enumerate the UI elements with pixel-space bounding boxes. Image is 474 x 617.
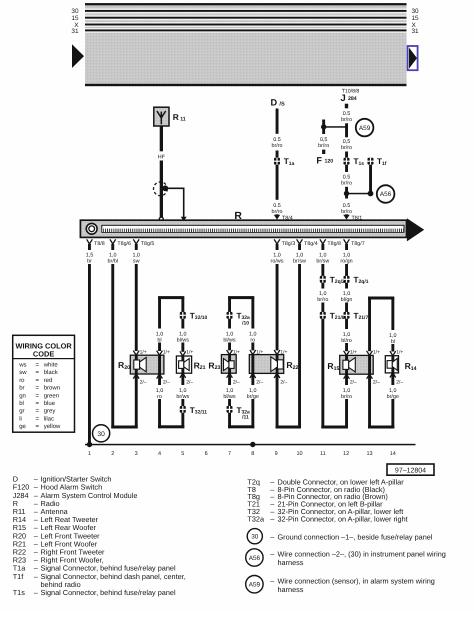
- svg-text:br/ro: br/ro: [271, 143, 282, 149]
- connector T2q/2: [320, 276, 345, 286]
- wire 1,0 ro/ws from T8g/3 to R22: [274, 264, 280, 355]
- svg-text:T8g/8: T8g/8: [327, 241, 341, 247]
- svg-text:gr: gr: [19, 409, 24, 415]
- pin T8g/8 on radio (bottom): [316, 239, 341, 264]
- svg-text:blue: blue: [44, 400, 56, 407]
- svg-text:0.5: 0.5: [343, 111, 351, 117]
- svg-text:2/–: 2/–: [140, 379, 147, 385]
- svg-text:br/ro: br/ro: [271, 209, 282, 215]
- legend wire connection A59: [246, 576, 435, 595]
- svg-text:white: white: [43, 362, 59, 369]
- pin T8g/6 on radio (bottom): [108, 239, 131, 264]
- tee junction to F120 branch: [321, 120, 347, 135]
- svg-text:1,5: 1,5: [86, 253, 94, 259]
- svg-text:1,0: 1,0: [319, 253, 327, 259]
- svg-text:=: =: [36, 424, 40, 430]
- svg-text:T8g/4: T8g/4: [304, 241, 318, 247]
- wire T1a to radio T8/4, 0.5 br/ro: [271, 165, 282, 216]
- svg-text:=: =: [36, 378, 40, 384]
- svg-text:red: red: [44, 377, 53, 384]
- return loop R22 right to T8g/4: [274, 373, 301, 428]
- svg-text:/11: /11: [242, 415, 249, 421]
- svg-text:br/ro: br/ro: [341, 181, 352, 187]
- svg-text:T8/8: T8/8: [94, 241, 105, 247]
- svg-text:bl: bl: [19, 400, 24, 407]
- power rail band: [85, 3, 407, 86]
- connector T32a/11: [227, 406, 251, 421]
- svg-text:0.5: 0.5: [273, 203, 281, 209]
- svg-text:0,5: 0,5: [320, 137, 328, 143]
- svg-text:2/–: 2/–: [163, 379, 170, 385]
- svg-text:black: black: [44, 369, 59, 376]
- svg-text:CODE: CODE: [33, 349, 54, 358]
- return loop T21/8 to R15: [321, 426, 348, 429]
- wire 1,0 bl/gn: [341, 283, 353, 312]
- svg-text:T32a: T32a: [247, 514, 265, 523]
- pin T8g/3 on radio (bottom): [271, 239, 296, 264]
- svg-text:=: =: [36, 386, 40, 392]
- svg-text:J: J: [341, 92, 346, 103]
- svg-text:14: 14: [411, 366, 417, 372]
- svg-text:23: 23: [215, 365, 221, 371]
- svg-text:br/ro: br/ro: [341, 145, 352, 151]
- svg-text:32/10: 32/10: [195, 315, 208, 321]
- svg-text:1,0: 1,0: [249, 331, 257, 337]
- svg-text:12: 12: [343, 451, 349, 457]
- ground connection 30: [93, 425, 110, 442]
- svg-text:Ground connection –1–, beside: Ground connection –1–, beside fuse/relay…: [278, 533, 433, 542]
- connector T2q/1: [344, 276, 369, 286]
- svg-text:11: 11: [180, 117, 186, 123]
- wire 1,0 br/ge from R22 left 2/-: [247, 373, 259, 428]
- wire 1,0 ro to R22: [249, 298, 257, 355]
- wire 1,0 bl/ws to R23: [223, 319, 236, 355]
- return loop R15 right to R14: [367, 374, 395, 428]
- svg-text:=: =: [36, 409, 40, 415]
- speaker R14 left rear tweeter: [385, 356, 398, 373]
- svg-text:ro/gn: ro/gn: [340, 259, 352, 265]
- pin T8/8 on radio (bottom): [86, 239, 105, 264]
- svg-text:1,0: 1,0: [389, 388, 397, 394]
- svg-text:1,0: 1,0: [273, 253, 281, 259]
- svg-text:A59: A59: [359, 125, 371, 132]
- svg-text:2/–: 2/–: [186, 379, 193, 385]
- svg-text:harness: harness: [278, 558, 304, 567]
- svg-text:5: 5: [181, 451, 184, 457]
- return loop R23 to R22: [228, 413, 254, 429]
- svg-text:lilac: lilac: [44, 415, 54, 422]
- svg-text:30: 30: [97, 431, 105, 438]
- wire 1,0 br/ro from R15 left 2/-: [341, 374, 352, 428]
- svg-text:7: 7: [228, 451, 231, 457]
- svg-text:2q/1: 2q/1: [359, 279, 369, 285]
- continuation arrow marker (boxed): [408, 46, 418, 70]
- svg-text:br: br: [87, 259, 92, 265]
- svg-text:2/–: 2/–: [373, 379, 380, 385]
- alarm system control module J284, pin T10/8/8: [341, 88, 360, 108]
- svg-text:grey: grey: [44, 409, 56, 415]
- node A56: [377, 185, 395, 203]
- bridge wire to tweeter circuit (left front): [157, 296, 185, 355]
- wire 1,0 br/bl from T8g/6 down: [111, 264, 114, 428]
- node A59: [356, 119, 374, 137]
- svg-text:1: 1: [88, 451, 91, 457]
- svg-text:br/ro: br/ro: [318, 143, 329, 149]
- pin T8g/5 on radio (bottom): [132, 239, 154, 264]
- svg-text:97–12804: 97–12804: [395, 468, 426, 475]
- svg-text:/10: /10: [242, 320, 249, 326]
- svg-text:A56: A56: [380, 191, 392, 198]
- svg-text:ws: ws: [18, 363, 26, 369]
- svg-text:22: 22: [293, 365, 299, 371]
- svg-text:br/sw: br/sw: [316, 259, 329, 265]
- connector T1s: [344, 157, 365, 167]
- svg-text:8: 8: [251, 451, 254, 457]
- wire T8g/8 down: [321, 264, 324, 276]
- svg-text:0.5: 0.5: [273, 137, 281, 143]
- svg-text:2/–: 2/–: [233, 379, 240, 385]
- svg-text:1,0: 1,0: [343, 332, 351, 338]
- svg-text:1,0: 1,0: [179, 331, 187, 337]
- svg-text:1/+: 1/+: [280, 350, 287, 356]
- svg-text:1,0: 1,0: [249, 388, 257, 394]
- svg-text:2/–: 2/–: [280, 379, 287, 385]
- return loop R20 to R21: [158, 413, 184, 429]
- svg-text:1a: 1a: [289, 161, 295, 167]
- pin T8/4 into radio: [274, 215, 293, 222]
- pin labels R15: [350, 350, 380, 386]
- wire bridge right leg: [181, 298, 184, 312]
- connector T1f: [368, 157, 387, 167]
- svg-text:ro: ro: [19, 378, 25, 384]
- pin T8g/4 on radio (bottom): [293, 239, 318, 264]
- svg-text:li: li: [19, 415, 22, 422]
- radio R (bus strip): [80, 218, 424, 241]
- svg-text:0.5: 0.5: [343, 203, 351, 209]
- svg-text:green: green: [44, 393, 59, 399]
- speaker R22 right front tweeter: [249, 355, 283, 374]
- svg-text:1,0: 1,0: [156, 388, 164, 394]
- svg-text:2/–: 2/–: [350, 379, 357, 385]
- connector T21/7: [344, 312, 369, 322]
- pin labels R21: [186, 350, 193, 386]
- svg-text:=: =: [36, 401, 40, 407]
- svg-text:32/11: 32/11: [195, 409, 207, 415]
- svg-text:=: =: [36, 370, 40, 376]
- svg-text:21: 21: [200, 365, 206, 371]
- svg-text:=: =: [36, 363, 40, 369]
- wire J284 down, 0.5 br/ro: [341, 111, 352, 137]
- svg-text:9: 9: [275, 451, 278, 457]
- svg-text:1,0: 1,0: [179, 388, 187, 394]
- ground reference dot terminal 8: [250, 442, 255, 447]
- svg-text:21/8: 21/8: [335, 315, 345, 321]
- svg-text:14: 14: [390, 451, 396, 457]
- wire 1,0 sw from T8g/5 to R20: [133, 264, 139, 355]
- pin labels R20: [140, 350, 170, 386]
- svg-text:1/+: 1/+: [256, 350, 263, 356]
- wire T8g/7 down: [345, 264, 348, 276]
- svg-text:1,0: 1,0: [226, 331, 234, 337]
- svg-text:20: 20: [124, 365, 130, 371]
- svg-text:=: =: [36, 416, 40, 422]
- connector T21/8: [320, 312, 345, 322]
- continuation arrow left: [72, 44, 84, 68]
- svg-text:4: 4: [158, 451, 161, 457]
- svg-text:2/–: 2/–: [396, 379, 403, 385]
- svg-text:2: 2: [111, 451, 114, 457]
- terminal labels left 30/15/X/31: [71, 8, 79, 35]
- svg-text:br/ro: br/ro: [317, 297, 328, 303]
- pin labels R22: [256, 350, 287, 386]
- junction dot antenna branch: [162, 185, 168, 191]
- svg-text:Signal Connector, behind fuse/: Signal Connector, behind fuse/relay pane…: [41, 588, 176, 597]
- svg-text:T8g/3: T8g/3: [282, 241, 296, 247]
- svg-text:bl/gn: bl/gn: [341, 297, 353, 303]
- connector T32a/10: [227, 312, 251, 327]
- svg-text:1/+: 1/+: [350, 350, 357, 356]
- svg-text:0,5: 0,5: [343, 139, 351, 145]
- svg-text:31: 31: [71, 28, 79, 35]
- wire to T1s, 0,5 br/ro: [341, 139, 352, 158]
- wire 1,0 br/ws from R21 2/-: [176, 373, 189, 406]
- junction wire to A56: [344, 191, 371, 196]
- wire T1f down to junction: [368, 165, 374, 197]
- svg-text:F: F: [316, 155, 322, 165]
- pin T8/1 into radio: [343, 215, 362, 222]
- speaker R21 left front woofer: [176, 356, 191, 373]
- speaker R20 left front tweeter: [130, 355, 164, 374]
- svg-text:3: 3: [135, 451, 138, 457]
- bridge wire to woofer circuit (right front): [228, 296, 254, 312]
- svg-text:1/+: 1/+: [233, 350, 240, 356]
- svg-text:1s: 1s: [359, 161, 365, 167]
- svg-text:1,0: 1,0: [389, 333, 397, 339]
- svg-text:1,0: 1,0: [343, 253, 351, 259]
- svg-text:2q/2: 2q/2: [335, 279, 345, 285]
- svg-text:yellow: yellow: [44, 423, 61, 430]
- svg-text:harness: harness: [278, 585, 304, 594]
- svg-text:A59: A59: [249, 582, 261, 589]
- legend left column: [13, 475, 186, 597]
- wire antenna branch to radio: [165, 188, 187, 221]
- svg-text:ge: ge: [19, 424, 26, 430]
- svg-text:bl: bl: [157, 338, 161, 344]
- svg-text:T1f: T1f: [13, 572, 25, 581]
- antenna R11: [154, 107, 186, 126]
- wire D/S to T1a, 0.5 br/ro: [271, 109, 282, 158]
- wire 1,0 br/ge from R14 2/-: [387, 373, 399, 428]
- svg-text:=: =: [36, 393, 40, 399]
- svg-text:1,0: 1,0: [319, 291, 327, 297]
- wire HF (antenna lead): [158, 126, 166, 217]
- ground terminal strip: [85, 444, 416, 457]
- svg-text:1,0: 1,0: [156, 331, 164, 337]
- svg-text:11: 11: [320, 451, 326, 457]
- svg-text:30: 30: [251, 534, 259, 541]
- svg-text:1,0: 1,0: [343, 291, 351, 297]
- svg-text:284: 284: [348, 96, 357, 102]
- svg-text:1f: 1f: [382, 161, 387, 167]
- svg-text:R: R: [173, 112, 179, 122]
- connector T32/11: [180, 406, 207, 416]
- return loop T8g/6 to R20 left 2/-: [111, 374, 139, 429]
- svg-text:T8g/7: T8g/7: [351, 241, 365, 247]
- wire 1,5 br from T8/8 to ground strip: [88, 264, 91, 445]
- svg-text:2/–: 2/–: [256, 379, 263, 385]
- ground junction dot terminal 1: [87, 442, 92, 447]
- bridge wire to rear tweeter circuit: [367, 297, 395, 356]
- diagram number box 97-12804: [387, 464, 434, 475]
- pin labels R14: [396, 350, 403, 386]
- svg-text:120: 120: [325, 159, 334, 165]
- svg-text:/S: /S: [279, 101, 285, 108]
- svg-text:br/ro: br/ro: [341, 209, 352, 215]
- svg-text:31: 31: [412, 28, 420, 35]
- svg-text:T8g/6: T8g/6: [117, 241, 131, 247]
- svg-text:br: br: [19, 385, 24, 392]
- hood alarm switch F120 branch, 0.5 br/ro: [316, 137, 333, 165]
- svg-text:HF: HF: [158, 154, 166, 160]
- svg-text:gn: gn: [19, 393, 26, 399]
- svg-text:D: D: [271, 98, 278, 108]
- svg-text:sw: sw: [19, 370, 27, 376]
- wire 1,0 bl/ro to R15: [341, 319, 352, 356]
- wire 1,0 ro from R20 right 2/-: [156, 374, 164, 428]
- legend ground connection 30: [247, 529, 433, 544]
- svg-text:21/7: 21/7: [359, 315, 369, 321]
- pin labels R23: [233, 350, 240, 386]
- svg-text:br/ro: br/ro: [341, 117, 352, 123]
- svg-text:T1s: T1s: [13, 588, 26, 597]
- svg-text:1,0: 1,0: [109, 253, 117, 259]
- svg-text:15: 15: [334, 366, 340, 372]
- connector T32/10: [180, 312, 208, 322]
- wire 1,0 br/ro: [317, 283, 328, 312]
- svg-text:1/+: 1/+: [373, 350, 380, 356]
- wire 1,0 bl/ws to R21: [177, 319, 190, 356]
- svg-text:br/sw: br/sw: [293, 259, 306, 265]
- svg-text:32-Pin Connector, on A-pillar,: 32-Pin Connector, on A-pillar, lower rig…: [278, 514, 408, 523]
- connector T1a: [274, 157, 295, 167]
- svg-text:1,0: 1,0: [226, 388, 234, 394]
- terminal labels right 30/15/X/31: [412, 8, 420, 35]
- svg-text:ro/ws: ro/ws: [271, 259, 284, 265]
- wiring color code box: [13, 335, 75, 432]
- svg-text:1/+: 1/+: [396, 350, 403, 356]
- wire 1,0 br/sw from T8g/4 down: [298, 264, 301, 428]
- svg-text:sw: sw: [133, 259, 140, 265]
- svg-text:1/+: 1/+: [140, 350, 147, 356]
- svg-text:13: 13: [366, 451, 372, 457]
- svg-text:1,0: 1,0: [296, 253, 304, 259]
- ignition/starter switch D/S: [271, 98, 285, 108]
- svg-text:0.5: 0.5: [343, 174, 351, 180]
- pin T8g/7 on radio (bottom): [340, 239, 364, 264]
- svg-text:brown: brown: [44, 385, 60, 392]
- svg-text:T8g/5: T8g/5: [141, 241, 155, 247]
- wire T1s down, 0.5 br/ro: [341, 165, 352, 199]
- shield node (dashed circle): [154, 182, 168, 196]
- svg-text:6: 6: [205, 451, 208, 457]
- svg-text:1,0: 1,0: [343, 388, 351, 394]
- svg-text:A56: A56: [249, 555, 261, 562]
- wire 1,0 bl/ws from R23 2/-: [223, 373, 236, 406]
- svg-text:10: 10: [296, 451, 302, 457]
- svg-text:1/+: 1/+: [163, 350, 170, 356]
- legend right column: [247, 477, 407, 523]
- speaker R23 right front woofer: [221, 355, 236, 374]
- svg-text:br/bl: br/bl: [108, 259, 119, 265]
- wire T21/8 down: [321, 319, 324, 428]
- speaker R15 left rear woofer: [340, 355, 374, 374]
- coax terminal at radio (open circle): [159, 217, 163, 221]
- svg-text:1/+: 1/+: [186, 350, 193, 356]
- legend wire connection A56: [246, 549, 446, 567]
- wire to radio T8/1, 0.5 br/ro: [341, 203, 352, 216]
- svg-text:1,0: 1,0: [132, 253, 140, 259]
- wire 1,0 bl to R14: [389, 298, 397, 356]
